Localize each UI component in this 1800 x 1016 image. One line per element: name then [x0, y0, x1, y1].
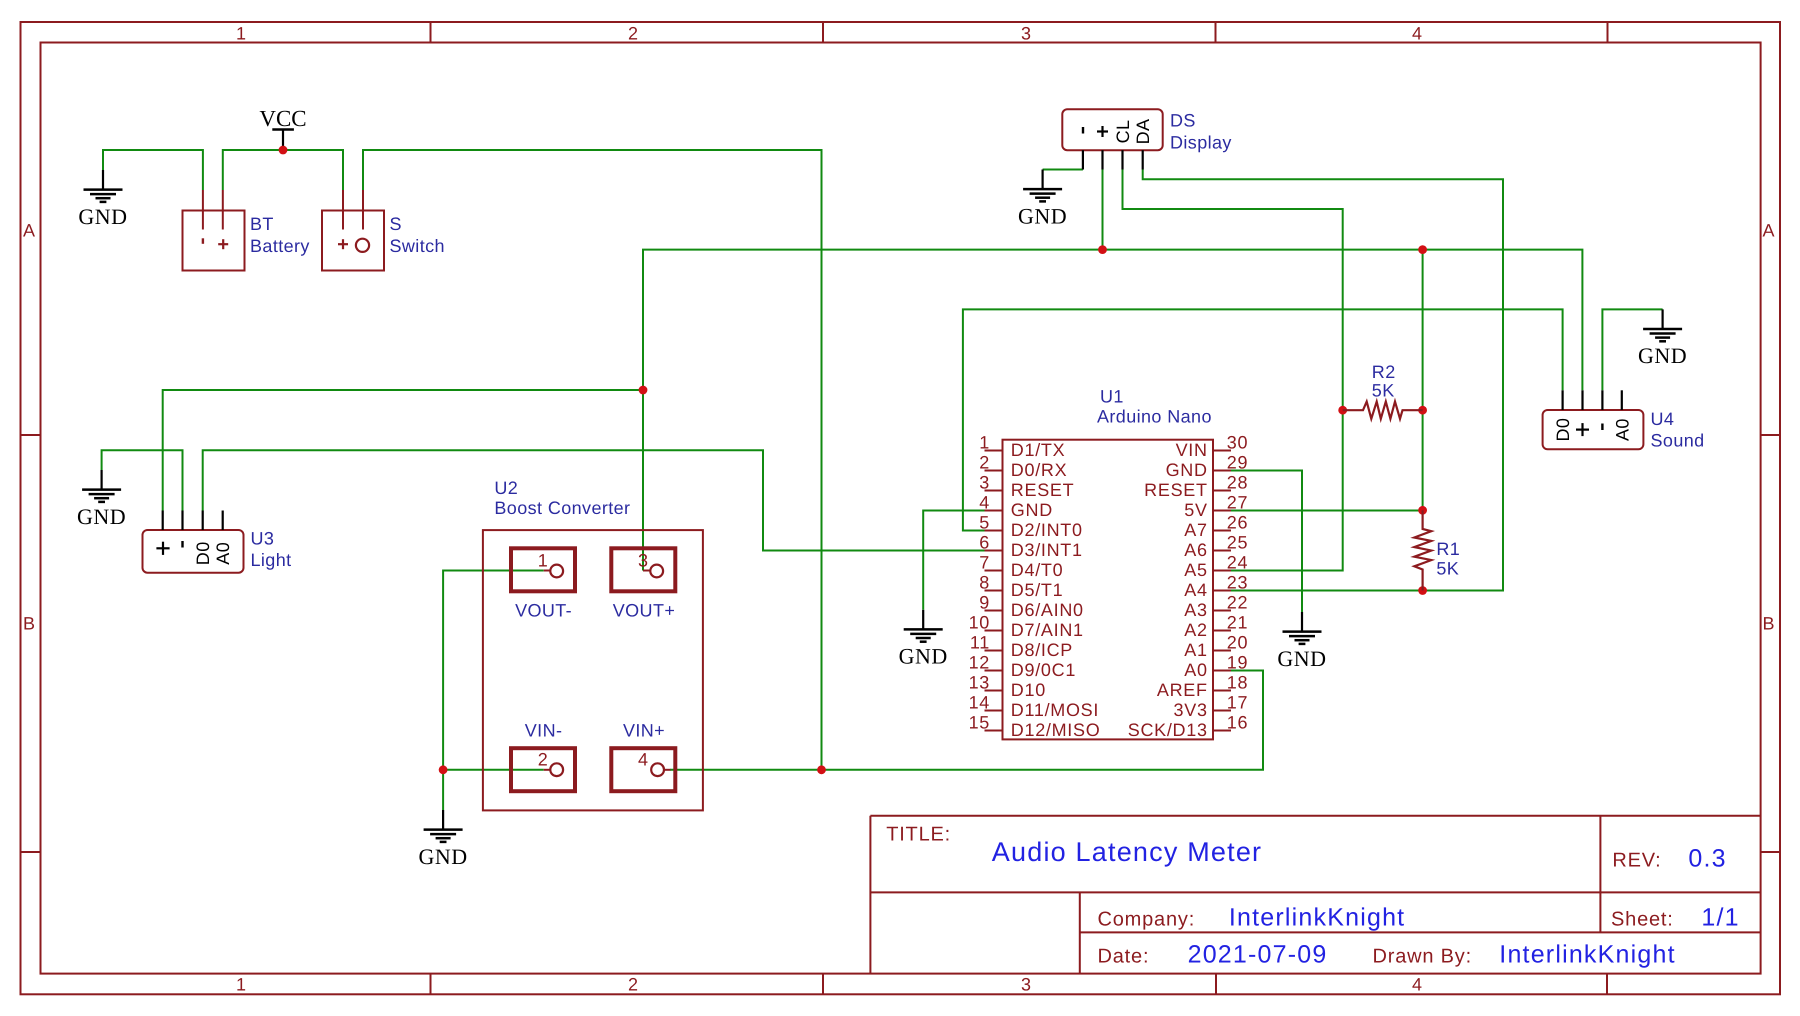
- svg-text:A7: A7: [1184, 520, 1207, 540]
- U1 pin 10 D7/AIN1: [969, 613, 1084, 641]
- U1 pin 25 A6: [1184, 533, 1248, 561]
- svg-text:VIN+: VIN+: [623, 721, 665, 741]
- svg-text:20: 20: [1227, 633, 1248, 653]
- svg-text:D5/T1: D5/T1: [1011, 580, 1064, 600]
- U1 pin 18 AREF: [1157, 673, 1248, 701]
- U1 pin 20 A1: [1184, 633, 1248, 661]
- svg-text:4: 4: [979, 493, 990, 513]
- svg-text:26: 26: [1227, 513, 1248, 533]
- U2 pad 1 VOUT-: [511, 548, 575, 591]
- label U4 Sound: [1651, 409, 1705, 451]
- battery BT: [183, 190, 245, 271]
- U1 pin 14 D11/MOSI: [969, 693, 1100, 721]
- svg-text:15: 15: [969, 713, 990, 733]
- svg-text:VCC: VCC: [259, 106, 306, 131]
- svg-text:3: 3: [979, 473, 990, 493]
- svg-text:1/1: 1/1: [1701, 904, 1739, 932]
- wire VCC: battery + up to rail: [223, 150, 343, 190]
- svg-text:Sheet:: Sheet:: [1611, 909, 1674, 931]
- svg-text:A2: A2: [1184, 620, 1207, 640]
- U1 pin 11 D8/ICP: [970, 633, 1073, 661]
- connector U4 Sound: [1543, 390, 1644, 449]
- svg-text:D11/MOSI: D11/MOSI: [1011, 700, 1099, 720]
- wire DA/A4 net: display DA to U1 pin 23: [1143, 170, 1503, 591]
- svg-text:D0: D0: [193, 541, 213, 565]
- U1 pin 16 SCK/D13: [1128, 713, 1248, 741]
- svg-text:D2/INT0: D2/INT0: [1011, 520, 1083, 540]
- svg-text:Battery: Battery: [250, 236, 310, 256]
- label S Switch: [390, 214, 445, 256]
- svg-text:B: B: [1762, 614, 1774, 634]
- junction VIN+ node: [817, 765, 826, 774]
- connector DS Display: [1062, 109, 1162, 169]
- ground GND (sound sensor): [1638, 309, 1687, 368]
- svg-text:D8/ICP: D8/ICP: [1011, 640, 1073, 660]
- svg-text:A3: A3: [1184, 600, 1207, 620]
- svg-text:AREF: AREF: [1157, 680, 1208, 700]
- svg-text:Switch: Switch: [390, 236, 445, 256]
- svg-text:D3/INT1: D3/INT1: [1011, 540, 1083, 560]
- svg-text:RESET: RESET: [1144, 480, 1208, 500]
- svg-text:28: 28: [1227, 473, 1248, 493]
- U2 pad 2 VIN-: [511, 748, 575, 791]
- svg-text:5V: 5V: [1184, 500, 1207, 520]
- label R2 5K: [1372, 362, 1396, 401]
- svg-text:19: 19: [1227, 653, 1248, 673]
- svg-text:D0/RX: D0/RX: [1011, 460, 1068, 480]
- svg-text:3V3: 3V3: [1174, 700, 1208, 720]
- U1 pin 30 VIN: [1176, 433, 1249, 461]
- svg-text:29: 29: [1227, 453, 1248, 473]
- svg-text:A0: A0: [1612, 418, 1632, 441]
- svg-text:Audio Latency Meter: Audio Latency Meter: [992, 837, 1262, 867]
- U1 pin 21 A2: [1184, 613, 1248, 641]
- svg-text:D7/AIN1: D7/AIN1: [1011, 620, 1084, 640]
- U1 pin 22 A3: [1184, 593, 1248, 621]
- svg-text:4: 4: [1412, 24, 1422, 44]
- svg-text:2: 2: [979, 453, 990, 473]
- ground GND (boost converter): [419, 810, 468, 869]
- junction 5V at display +: [1098, 245, 1107, 254]
- svg-text:GND: GND: [1638, 343, 1687, 368]
- resistor R1 5K: [1414, 510, 1431, 590]
- wire GND net: U1 pin 4 to ground: [923, 511, 986, 610]
- label DS Display: [1170, 111, 1232, 153]
- svg-text:D0: D0: [1553, 418, 1573, 442]
- svg-text:Display: Display: [1170, 133, 1232, 153]
- svg-text:Company:: Company:: [1098, 909, 1196, 931]
- switch S: [322, 190, 384, 271]
- svg-text:U1: U1: [1100, 387, 1124, 407]
- junction VCC node: [279, 146, 288, 155]
- svg-text:1: 1: [236, 24, 246, 44]
- svg-text:23: 23: [1227, 573, 1248, 593]
- svg-text:2: 2: [628, 24, 638, 44]
- svg-text:InterlinkKnight: InterlinkKnight: [1499, 941, 1675, 969]
- svg-text:Light: Light: [251, 550, 292, 570]
- svg-text:12: 12: [969, 653, 990, 673]
- label U3 Light: [251, 529, 292, 571]
- svg-text:D1/TX: D1/TX: [1011, 440, 1066, 460]
- svg-text:Arduino Nano: Arduino Nano: [1097, 407, 1212, 427]
- label BT Battery: [250, 214, 310, 256]
- svg-text:S: S: [390, 214, 402, 234]
- svg-text:U4: U4: [1651, 409, 1675, 429]
- svg-text:3: 3: [1021, 24, 1031, 44]
- svg-text:A: A: [1762, 221, 1774, 241]
- svg-text:VIN: VIN: [1176, 440, 1208, 460]
- wire GND net: battery - to ground: [103, 150, 203, 190]
- svg-text:2021-07-09: 2021-07-09: [1188, 941, 1328, 969]
- U1 pin 1 D1/TX: [979, 433, 1065, 461]
- label U1 Arduino Nano: [1097, 387, 1212, 427]
- svg-text:U2: U2: [494, 478, 518, 498]
- wire 5V rail: VOUT+ pad 3 riser: [643, 250, 1582, 571]
- U1 pin 6 D3/INT1: [979, 533, 1082, 561]
- svg-text:A0: A0: [1184, 660, 1207, 680]
- svg-text:D9/0C1: D9/0C1: [1011, 660, 1076, 680]
- svg-text:1: 1: [538, 550, 549, 570]
- junction R1 bottom on A4 net: [1418, 586, 1427, 595]
- svg-text:BT: BT: [250, 214, 274, 234]
- U1 pin 8 D5/T1: [979, 573, 1063, 601]
- U1 pin 9 D6/AIN0: [979, 593, 1083, 621]
- svg-text:A6: A6: [1184, 540, 1207, 560]
- svg-text:11: 11: [970, 633, 990, 653]
- svg-text:VOUT-: VOUT-: [515, 601, 572, 621]
- wire D2 net: U4 D0 to U1 pin 5: [963, 309, 1563, 530]
- svg-text:R2: R2: [1372, 362, 1396, 382]
- svg-text:CL: CL: [1113, 120, 1133, 144]
- svg-text:A4: A4: [1184, 580, 1207, 600]
- title block: [870, 816, 1760, 974]
- U1 pin 5 D2/INT0: [979, 513, 1082, 541]
- svg-text:8: 8: [979, 573, 990, 593]
- U1 pin 12 D9/0C1: [969, 653, 1076, 681]
- svg-text:30: 30: [1227, 433, 1248, 453]
- svg-text:14: 14: [969, 693, 990, 713]
- svg-text:21: 21: [1227, 613, 1248, 633]
- svg-text:A: A: [23, 221, 35, 241]
- svg-text:R1: R1: [1436, 539, 1460, 559]
- svg-text:0.3: 0.3: [1688, 845, 1726, 873]
- wire VIN+ : pad 4 to junction: [670, 769, 822, 771]
- svg-text:VOUT+: VOUT+: [613, 601, 676, 621]
- svg-text:GND: GND: [77, 504, 126, 529]
- wire GND net: U3 - to ground: [102, 450, 183, 510]
- label U2 Boost Converter: [494, 478, 630, 518]
- ground GND (display): [1018, 170, 1067, 229]
- svg-text:25: 25: [1227, 533, 1248, 553]
- wire SW net: switch out down to VIN+ junction: [363, 150, 822, 770]
- U1 pin 15 D12/MISO: [969, 713, 1101, 741]
- svg-text:TITLE:: TITLE:: [886, 824, 951, 846]
- ground GND (U1 pin 29): [1277, 612, 1326, 671]
- svg-text:22: 22: [1227, 593, 1248, 613]
- svg-text:A0: A0: [213, 542, 233, 565]
- svg-text:Sound: Sound: [1651, 431, 1705, 451]
- svg-text:27: 27: [1227, 493, 1248, 513]
- ground GND (light sensor): [77, 470, 126, 529]
- svg-text:7: 7: [979, 553, 990, 573]
- wire GND net: junction to VIN- pad 2: [443, 769, 544, 771]
- U1 pin 4 GND: [979, 493, 1053, 521]
- junction R2 left on CL net: [1338, 406, 1347, 415]
- svg-text:Drawn By:: Drawn By:: [1373, 946, 1472, 968]
- svg-text:24: 24: [1227, 553, 1248, 573]
- svg-text:D4/T0: D4/T0: [1011, 560, 1064, 580]
- wire 5V rail: U1 pin 27 to R1 top: [1231, 510, 1423, 512]
- svg-text:2: 2: [538, 750, 549, 770]
- wire 5V rail: pullup feed riser: [1422, 250, 1424, 510]
- resistor R2 5K: [1343, 402, 1423, 419]
- svg-text:Date:: Date:: [1098, 946, 1150, 968]
- svg-text:VIN-: VIN-: [525, 721, 563, 741]
- U1 pin 28 RESET: [1144, 473, 1248, 501]
- junction R2 right on 5V riser: [1418, 406, 1427, 415]
- svg-text:GND: GND: [1011, 500, 1053, 520]
- svg-text:A1: A1: [1184, 640, 1207, 660]
- junction GND at VIN-: [439, 765, 448, 774]
- svg-text:16: 16: [1227, 713, 1248, 733]
- junction 5V at U3 +: [639, 386, 648, 395]
- svg-text:3: 3: [1021, 975, 1031, 995]
- U1 pin 7 D4/T0: [979, 553, 1063, 581]
- wire D3 net: U3 D0 to U1 pin 6: [203, 450, 986, 550]
- svg-text:2: 2: [628, 975, 638, 995]
- junction R1 top on 5V: [1418, 506, 1427, 515]
- ground GND (U1 pin 4): [899, 610, 948, 669]
- svg-text:5: 5: [979, 513, 990, 533]
- svg-text:DA: DA: [1133, 119, 1153, 145]
- svg-text:RESET: RESET: [1011, 480, 1075, 500]
- svg-text:DS: DS: [1170, 111, 1196, 131]
- svg-text:InterlinkKnight: InterlinkKnight: [1229, 904, 1405, 932]
- svg-text:A5: A5: [1184, 560, 1207, 580]
- svg-text:4: 4: [638, 750, 649, 770]
- svg-text:9: 9: [979, 593, 990, 613]
- wire GND net: VOUT- to VIN- and ground: [443, 571, 544, 811]
- svg-text:GND: GND: [1018, 203, 1067, 228]
- wire A0 sense: junction to U1 pin 19: [822, 671, 1264, 770]
- svg-text:B: B: [23, 614, 35, 634]
- svg-text:U3: U3: [251, 529, 275, 549]
- svg-text:13: 13: [969, 673, 990, 693]
- wire GND net: U1 pin 29 to ground: [1231, 471, 1302, 613]
- svg-text:5K: 5K: [1372, 381, 1395, 401]
- U2 pad 3 VOUT+: [611, 548, 675, 591]
- svg-text:4: 4: [1412, 975, 1422, 995]
- svg-text:REV:: REV:: [1612, 850, 1661, 872]
- wire GND net: U4 - to ground: [1602, 309, 1662, 390]
- U1 pin 2 D0/RX: [979, 453, 1067, 481]
- svg-text:GND: GND: [1166, 460, 1208, 480]
- U1 pin 19 A0: [1184, 653, 1248, 681]
- svg-text:GND: GND: [419, 844, 468, 869]
- label R1 5K: [1436, 539, 1460, 578]
- U1 pin 24 A5: [1184, 553, 1248, 581]
- U2 pad 4 VIN+: [611, 748, 675, 791]
- svg-text:D10: D10: [1011, 680, 1046, 700]
- svg-text:D6/AIN0: D6/AIN0: [1011, 600, 1084, 620]
- U1 pin 13 D10: [969, 673, 1046, 701]
- svg-text:GND: GND: [1277, 646, 1326, 671]
- svg-text:1: 1: [979, 433, 990, 453]
- svg-text:1: 1: [236, 975, 246, 995]
- svg-text:GND: GND: [78, 204, 127, 229]
- module U2 Boost Converter body: [483, 530, 703, 810]
- svg-text:GND: GND: [899, 644, 948, 669]
- svg-text:3: 3: [638, 550, 649, 570]
- wire CL/A5 net: display CL to U1 pin 24: [1123, 170, 1343, 571]
- wire GND net: display - to ground: [1043, 169, 1083, 171]
- svg-text:6: 6: [979, 533, 990, 553]
- svg-text:17: 17: [1227, 693, 1248, 713]
- U1 pin 3 RESET: [979, 473, 1074, 501]
- U1 pin 27 5V: [1184, 493, 1248, 521]
- power flag VCC: [259, 106, 306, 150]
- U1 pin 17 3V3: [1174, 693, 1249, 721]
- svg-text:D12/MISO: D12/MISO: [1011, 720, 1101, 740]
- U1 pin 29 GND: [1166, 453, 1249, 481]
- junction 5V at pullup riser: [1418, 245, 1427, 254]
- ground GND (battery): [78, 170, 127, 229]
- U1 pin 26 A7: [1184, 513, 1248, 541]
- svg-text:10: 10: [969, 613, 990, 633]
- wire 5V rail: U3 + up to VOUT+ junction: [163, 390, 643, 511]
- wire 5V rail: display + drop: [1102, 170, 1104, 250]
- connector U3 Light: [143, 511, 244, 573]
- svg-text:Boost Converter: Boost Converter: [494, 498, 630, 518]
- U1 pin 23 A4: [1184, 573, 1248, 601]
- svg-text:SCK/D13: SCK/D13: [1128, 720, 1208, 740]
- svg-text:5K: 5K: [1436, 558, 1459, 578]
- IC U1 Arduino Nano body: [1003, 440, 1214, 740]
- svg-text:18: 18: [1227, 673, 1248, 693]
